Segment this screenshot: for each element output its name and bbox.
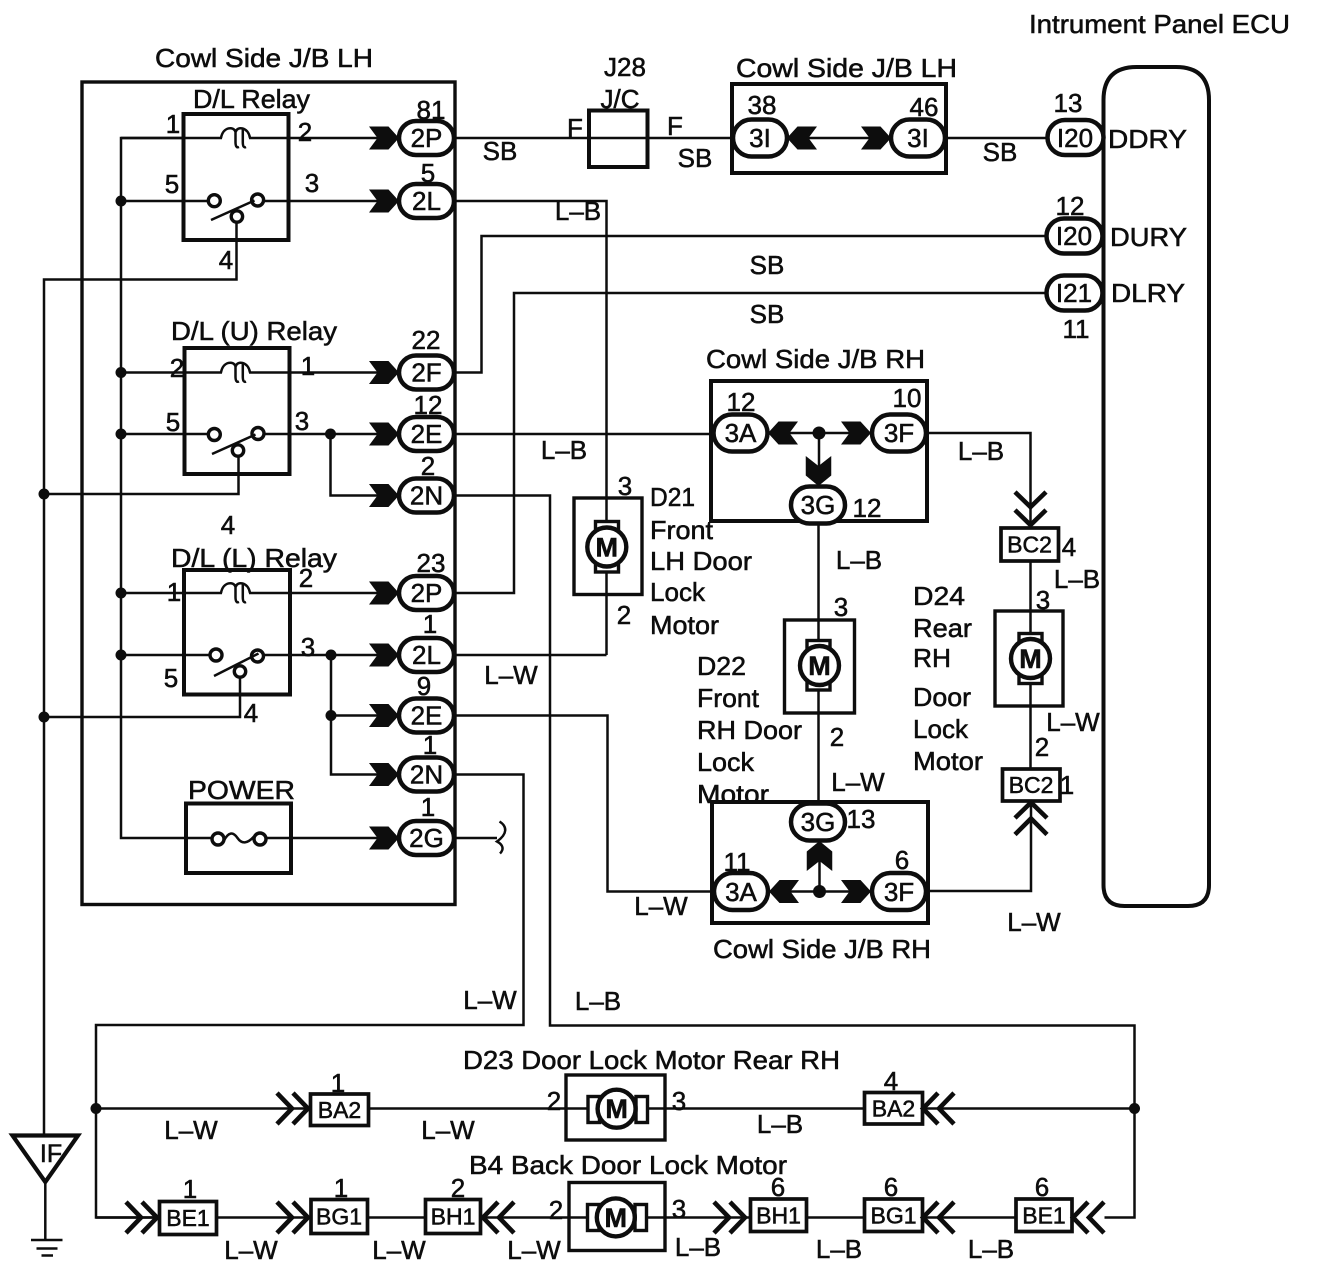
wire 2E(9) right down to 3A lower	[454, 716, 714, 892]
wire stub after 2G with continuation squiggle	[454, 837, 497, 840]
svg-text:Cowl Side J/B RH: Cowl Side J/B RH	[706, 344, 925, 374]
svg-text:L–W: L–W	[164, 1115, 218, 1145]
wire relay2 switch row pin5 side	[121, 433, 209, 436]
node bus/relay1 pin5	[116, 196, 127, 207]
wire branch relay3 pin3 down to 2E(9) and 2N(1)	[331, 655, 399, 775]
svg-text:1: 1	[423, 730, 437, 760]
svg-text:13: 13	[1054, 88, 1083, 118]
svg-text:2: 2	[298, 117, 312, 147]
svg-text:2E: 2E	[411, 701, 443, 731]
node relay3 branch at 2E(9)	[326, 710, 337, 721]
wire B4 row segment bus to BE1	[96, 1216, 160, 1219]
connector arrow into 3G upper	[806, 456, 832, 486]
connector box BE1 (1)	[160, 1202, 217, 1235]
motor D23 box	[566, 1075, 665, 1140]
wire BH1 to BG1 right	[807, 1216, 865, 1219]
svg-text:BG1: BG1	[870, 1203, 916, 1229]
svg-text:2: 2	[451, 1173, 465, 1203]
svg-text:4: 4	[219, 245, 233, 275]
svg-text:L–B: L–B	[575, 986, 621, 1016]
wire 2P(23) up and right to I21 DLRY	[454, 293, 1048, 593]
svg-text:Motor: Motor	[913, 746, 983, 776]
svg-text:L–B: L–B	[968, 1234, 1014, 1264]
svg-text:5: 5	[421, 158, 435, 188]
svg-text:6: 6	[1035, 1172, 1049, 1202]
svg-text:SB: SB	[678, 143, 713, 173]
svg-text:4: 4	[884, 1066, 898, 1096]
wire relay3 switch row pin5 side	[121, 654, 211, 657]
svg-text:2E: 2E	[411, 419, 443, 449]
wire 2N(2) right, down, to bottom-right bus	[454, 496, 1135, 1218]
wire through D24 down to BC2 (1)	[1029, 611, 1032, 769]
connector oval 3A (11)	[714, 873, 768, 910]
svg-text:D/L (U) Relay: D/L (U) Relay	[171, 316, 337, 346]
chevrons out of BH1 (2)	[483, 1202, 498, 1233]
svg-text:I21: I21	[1056, 278, 1092, 308]
svg-text:22: 22	[412, 325, 441, 355]
svg-text:Front: Front	[650, 515, 714, 545]
switch K3 lever	[214, 654, 259, 677]
relay K3 D/L (L) Relay box	[184, 570, 290, 695]
relay K1 D/L Relay box	[184, 114, 289, 240]
connector oval I21 (11) DLRY	[1047, 276, 1103, 311]
connector box BA2 (1)	[311, 1094, 369, 1126]
wire relay3 switch pin3 to 2L	[264, 654, 400, 657]
svg-text:BC2: BC2	[1007, 532, 1052, 558]
node ground bus / relay3 pin4	[39, 712, 50, 723]
svg-text:DLRY: DLRY	[1111, 278, 1185, 308]
connector box BC2 (1)	[1003, 769, 1061, 801]
svg-text:L–W: L–W	[224, 1235, 278, 1265]
svg-text:12: 12	[727, 387, 756, 417]
svg-text:2L: 2L	[412, 186, 441, 216]
Cowl Side J/B LH (right) box	[732, 84, 946, 173]
wire fuse row right side to 2G	[266, 837, 399, 840]
svg-text:4: 4	[221, 510, 235, 540]
wire D23 row left BA2 to motor to right BA2	[96, 1107, 865, 1110]
wire branch relay2 pin3 down to 2N	[331, 434, 400, 496]
svg-text:1: 1	[183, 1174, 197, 1204]
connector oval 2E (9)	[399, 699, 454, 733]
svg-text:2: 2	[170, 353, 184, 383]
svg-text:BG1: BG1	[316, 1204, 362, 1230]
connector oval 2E (12)	[399, 417, 454, 451]
wire through B4 motor	[569, 1216, 665, 1219]
svg-text:10: 10	[893, 383, 922, 413]
node ground bus / relay2 pin4	[39, 489, 50, 500]
svg-text:12: 12	[1056, 191, 1085, 221]
svg-text:2N: 2N	[410, 481, 443, 511]
connector oval 2P (23)	[399, 576, 454, 610]
motor B4 circle	[597, 1198, 635, 1236]
svg-text:1: 1	[167, 577, 181, 607]
node lower JB RH	[813, 885, 826, 898]
node bus/relay3 pin5	[116, 650, 127, 661]
node bottom-left bus at D23 row	[91, 1103, 102, 1114]
wire between 3I ovals	[787, 137, 891, 140]
svg-text:Intrument Panel ECU: Intrument Panel ECU	[1029, 9, 1290, 39]
connector arrow to 2L(5)	[369, 190, 399, 213]
svg-text:RH Door: RH Door	[697, 715, 802, 745]
chevrons into BA2 (1)	[277, 1093, 292, 1124]
connector arrow into 3I right	[861, 127, 891, 150]
connector arrow to 2F(22)	[369, 361, 399, 384]
svg-text:3: 3	[672, 1086, 686, 1116]
connector box BE1 (6)	[1016, 1199, 1072, 1232]
svg-text:2: 2	[830, 722, 844, 752]
svg-text:BA2: BA2	[872, 1096, 915, 1122]
connector oval 3I (38)	[733, 120, 787, 157]
motor D22 box	[785, 620, 855, 713]
svg-text:F: F	[567, 113, 583, 143]
connector oval 2P (81)	[399, 121, 454, 155]
svg-text:M: M	[1019, 644, 1042, 674]
chevrons into BE1 (1)	[126, 1202, 141, 1233]
connector arrow to 2P(23)	[369, 582, 399, 605]
connector oval 2F (22)	[399, 356, 454, 390]
svg-text:Rear: Rear	[913, 613, 972, 643]
wire between 3A and 3F lower	[769, 890, 871, 893]
node bus/relay2 pin5	[116, 429, 127, 440]
svg-text:1: 1	[1060, 770, 1074, 800]
coil K3	[221, 583, 239, 602]
svg-text:L–W: L–W	[372, 1235, 426, 1265]
connector oval 3F (6)	[872, 873, 926, 910]
wire 2L(5) right and down to D21 pin3	[454, 201, 607, 655]
wire 3G lower down to node	[818, 841, 821, 892]
connector arrow to 2L(1)	[369, 644, 399, 667]
chevrons into BG1 (1)	[277, 1202, 292, 1233]
svg-text:BA2: BA2	[318, 1097, 361, 1123]
motor B4 brush right	[635, 1205, 647, 1231]
connector box BA2 (4)	[865, 1093, 923, 1125]
svg-text:Front: Front	[697, 683, 760, 713]
chevrons out of BA2 (4)	[923, 1093, 938, 1124]
switch K2 contacts	[208, 429, 220, 441]
svg-text:BH1: BH1	[756, 1203, 801, 1229]
wire B4 motor to BH1 (6)	[665, 1216, 751, 1219]
motor D22 circle	[800, 646, 839, 685]
svg-text:3: 3	[834, 592, 848, 622]
svg-text:3F: 3F	[884, 877, 914, 907]
svg-text:BE1: BE1	[166, 1205, 209, 1231]
svg-text:4: 4	[1062, 532, 1076, 562]
svg-text:5: 5	[165, 169, 179, 199]
wire right BA2 to bottom-right bus	[923, 1107, 1135, 1110]
wire BE1 to BG1	[217, 1216, 312, 1219]
svg-text:D24: D24	[913, 581, 965, 611]
wire IF to ground	[44, 1182, 47, 1240]
svg-text:B4 Back Door Lock Motor: B4 Back Door Lock Motor	[469, 1150, 787, 1180]
chevrons out of BE1 (6)	[1073, 1202, 1088, 1233]
wire branch to 2E(9)	[331, 714, 399, 717]
motor D21 brush top	[596, 522, 619, 532]
coil K2	[221, 363, 239, 382]
Cowl Side J/B LH outer box	[82, 82, 455, 905]
connector oval 2N (1)	[399, 758, 454, 792]
svg-text:1: 1	[421, 792, 435, 822]
svg-text:J/C: J/C	[601, 84, 640, 114]
svg-text:4: 4	[244, 698, 258, 728]
svg-text:L–W: L–W	[1046, 707, 1100, 737]
svg-text:2: 2	[299, 563, 313, 593]
connector oval I20 (13) DDRY	[1048, 120, 1104, 155]
wire BG1 to BH1	[368, 1216, 426, 1219]
svg-text:3: 3	[672, 1194, 686, 1224]
svg-text:13: 13	[847, 804, 876, 834]
svg-text:I20: I20	[1057, 123, 1093, 153]
wire 2F(22) up and right to I20 DURY	[454, 236, 1048, 373]
svg-text:Cowl Side J/B RH: Cowl Side J/B RH	[713, 934, 931, 964]
svg-text:3I: 3I	[749, 123, 771, 153]
connector oval 2L (5)	[399, 184, 454, 218]
connector oval 2L (1)	[399, 638, 454, 672]
svg-text:3I: 3I	[907, 123, 929, 153]
wire relay3 coil row	[121, 592, 222, 595]
wire BC2 down to D24	[1029, 561, 1032, 611]
connector arrow to 2G(1)	[369, 827, 399, 850]
wire 3I to I20 DDRY	[945, 137, 1048, 140]
svg-text:2P: 2P	[411, 578, 443, 608]
svg-text:I20: I20	[1056, 221, 1092, 251]
connector box BG1 (1)	[311, 1200, 368, 1234]
svg-text:Lock: Lock	[650, 577, 706, 607]
connector arrow to 2E(9)	[369, 704, 399, 727]
svg-text:D23 Door Lock Motor Rear RH: D23 Door Lock Motor Rear RH	[463, 1045, 840, 1075]
node relay3 pin3 branch top	[326, 650, 337, 661]
svg-text:J28: J28	[604, 52, 646, 82]
svg-text:L–B: L–B	[555, 196, 601, 226]
svg-text:2: 2	[421, 451, 435, 481]
connector arrow up into 3G lower	[807, 841, 833, 871]
svg-text:3A: 3A	[725, 877, 757, 907]
svg-text:L–B: L–B	[836, 545, 882, 575]
svg-text:Motor: Motor	[697, 779, 769, 809]
motor B4 brush left	[588, 1205, 600, 1231]
connector arrow into 3F lower	[841, 880, 871, 903]
node bottom-right bus at D23 row	[1129, 1103, 1140, 1114]
svg-text:L–W: L–W	[831, 767, 885, 797]
svg-text:SB: SB	[750, 299, 785, 329]
svg-text:2: 2	[547, 1086, 561, 1116]
svg-text:2G: 2G	[409, 823, 444, 853]
wire 2N(1) right down left to bottom-left bus	[96, 775, 524, 1218]
svg-text:1: 1	[334, 1173, 348, 1203]
motor D22 brush bottom	[807, 681, 830, 691]
svg-text:L–B: L–B	[1054, 564, 1100, 594]
svg-text:Lock: Lock	[697, 747, 755, 777]
svg-text:L–B: L–B	[816, 1234, 862, 1264]
svg-text:5: 5	[166, 407, 180, 437]
svg-text:11: 11	[1063, 314, 1090, 344]
svg-text:1: 1	[301, 351, 315, 381]
switch K2 lever	[212, 435, 256, 455]
svg-text:DDRY: DDRY	[1108, 124, 1187, 154]
motor D24 box	[995, 611, 1063, 706]
motor D23 brush right	[636, 1097, 648, 1123]
wire down from node to 3G upper	[818, 433, 821, 487]
motor D24 circle	[1011, 639, 1050, 678]
svg-text:SB: SB	[983, 137, 1018, 167]
ground symbol IF triangle	[13, 1136, 79, 1183]
svg-text:Door: Door	[913, 682, 971, 712]
svg-text:3: 3	[301, 632, 315, 662]
coil K1	[221, 128, 239, 147]
svg-text:M: M	[596, 533, 619, 563]
svg-text:23: 23	[417, 548, 446, 578]
wire relay2 coil row	[121, 371, 222, 374]
wire BH1 to B4 motor	[481, 1216, 570, 1219]
svg-text:2: 2	[617, 600, 631, 630]
svg-text:SB: SB	[483, 136, 518, 166]
svg-text:D/L Relay: D/L Relay	[193, 84, 310, 114]
POWER fuse box	[186, 804, 291, 874]
svg-text:L–B: L–B	[958, 436, 1004, 466]
svg-text:DURY: DURY	[1110, 222, 1187, 252]
connector oval 3G (13)	[791, 804, 845, 841]
wire between 3A and 3F upper	[768, 432, 871, 435]
connector box BH1 (6)	[751, 1199, 807, 1232]
junction box J28 J/C	[589, 111, 648, 168]
svg-text:SB: SB	[750, 250, 785, 280]
connector oval 3I (46)	[891, 120, 945, 157]
chevrons into BC2 (4)	[1015, 492, 1046, 507]
svg-text:L–W: L–W	[1007, 907, 1061, 937]
motor D22 brush top	[807, 641, 830, 651]
wire relay1 coil row	[121, 137, 222, 140]
svg-text:Motor: Motor	[650, 610, 719, 640]
svg-text:POWER: POWER	[188, 775, 295, 805]
wire 2P(81) to J28 to 3I	[454, 137, 734, 140]
svg-text:3: 3	[305, 168, 319, 198]
wire relay1 switch row pin5 side	[121, 200, 209, 203]
wire relay3 pin4 to ground bus	[44, 677, 240, 717]
svg-text:9: 9	[417, 671, 431, 701]
svg-text:3F: 3F	[884, 418, 914, 448]
connector arrow to 2E(12)	[369, 423, 399, 446]
connector box BG1 (6)	[865, 1199, 923, 1232]
svg-text:3: 3	[295, 406, 309, 436]
connector arrow to 2N(1)	[369, 763, 399, 786]
svg-text:5: 5	[164, 663, 178, 693]
wire 3F upper right down to BC2	[926, 433, 1031, 528]
wire 2E(12) to 3A upper	[454, 433, 714, 436]
svg-text:M: M	[605, 1203, 628, 1233]
svg-text:46: 46	[910, 92, 939, 122]
wire 3G upper down through D22 to 3G lower	[817, 524, 820, 804]
svg-text:Cowl Side J/B LH: Cowl Side J/B LH	[155, 43, 373, 73]
svg-text:L–B: L–B	[675, 1232, 721, 1262]
connector oval 3F (10)	[872, 415, 926, 452]
motor D24 brush bottom	[1019, 674, 1042, 684]
connector oval 3A (12)	[714, 415, 768, 452]
wire BG1 to BE1 right	[923, 1216, 1017, 1219]
wire BC2 (1) down and left to 3F lower	[927, 801, 1032, 891]
connector oval 2N (2)	[399, 479, 454, 513]
Intrument Panel ECU box	[1104, 67, 1210, 906]
svg-text:BE1: BE1	[1022, 1203, 1065, 1229]
svg-text:L–W: L–W	[463, 985, 517, 1015]
svg-text:D21: D21	[650, 482, 695, 512]
motor D21 box	[574, 498, 642, 595]
svg-text:M: M	[808, 651, 831, 681]
wire relay1 switch pin3 to 2L	[264, 200, 400, 203]
connector box BC2 (4)	[1001, 528, 1059, 561]
motor D24 brush top	[1019, 634, 1042, 644]
svg-text:F: F	[667, 111, 683, 141]
svg-text:12: 12	[853, 493, 882, 523]
svg-text:1: 1	[423, 609, 437, 639]
svg-text:6: 6	[895, 845, 909, 875]
svg-text:6: 6	[771, 1172, 785, 1202]
chevrons into BH1 (6)	[714, 1202, 729, 1233]
svg-text:BH1: BH1	[431, 1204, 476, 1230]
Cowl Side J/B RH lower box	[712, 802, 928, 923]
wire relay2 pin4 to ground bus	[44, 456, 239, 494]
Cowl Side J/B RH upper box	[711, 381, 927, 521]
wire ground bus x=44 from relay1 pin4 down to IF	[44, 221, 237, 1136]
svg-text:11: 11	[724, 847, 751, 877]
svg-text:L–W: L–W	[484, 660, 538, 690]
svg-text:LH Door: LH Door	[650, 546, 752, 576]
switch K3 contacts	[210, 649, 222, 661]
node bus/relay3 pin1	[116, 588, 127, 599]
wire bus x=121 from relay1 pin1 down to POWER	[121, 138, 212, 838]
fuse F1 symbol	[212, 833, 224, 845]
motor D23 circle	[598, 1090, 636, 1128]
svg-text:2P: 2P	[411, 123, 443, 153]
svg-text:IF: IF	[40, 1140, 62, 1168]
node relay2 pin3 branch	[325, 429, 336, 440]
svg-text:RH: RH	[913, 643, 951, 673]
svg-text:3A: 3A	[725, 418, 757, 448]
svg-text:L–B: L–B	[541, 435, 587, 465]
motor D21 circle	[587, 528, 626, 567]
chevrons out of BC2 (1)	[1015, 803, 1047, 819]
connector arrow into 3A lower	[769, 880, 799, 903]
wire 2L(1) to D21 pin2	[454, 654, 607, 657]
connector arrow into 3F upper	[841, 422, 871, 445]
svg-text:12: 12	[414, 390, 443, 420]
svg-text:2L: 2L	[412, 640, 441, 670]
motor B4 box	[569, 1183, 665, 1251]
svg-text:Lock: Lock	[913, 714, 969, 744]
svg-text:2F: 2F	[411, 358, 441, 388]
relay K2 D/L (U) Relay box	[185, 348, 290, 474]
node upper JB RH	[813, 427, 826, 440]
svg-text:M: M	[605, 1094, 628, 1124]
switch K1 lever	[211, 201, 255, 221]
connector oval 2G (1)	[399, 821, 454, 855]
connector arrow into 3A upper	[768, 422, 798, 445]
chevrons out of BG1 (6)	[923, 1202, 938, 1233]
node bus/relay2 pin2	[116, 367, 127, 378]
svg-text:2N: 2N	[410, 760, 443, 790]
connector arrow to 2P(81)	[369, 127, 399, 150]
svg-text:D22: D22	[697, 651, 746, 681]
svg-text:L–W: L–W	[507, 1235, 561, 1265]
svg-text:3G: 3G	[801, 807, 836, 837]
motor D23 brush left	[588, 1097, 600, 1123]
connector box BH1 (2)	[426, 1200, 481, 1234]
svg-text:BC2: BC2	[1009, 772, 1054, 798]
connector oval I20 (12) DURY	[1047, 219, 1103, 254]
wire relay2 switch pin3 to 2E	[264, 433, 400, 436]
svg-text:Cowl Side J/B LH: Cowl Side J/B LH	[736, 53, 957, 83]
connector arrow to 2N(2)	[369, 484, 399, 507]
svg-text:3G: 3G	[801, 490, 836, 520]
connector oval 3G (12)	[791, 487, 845, 524]
